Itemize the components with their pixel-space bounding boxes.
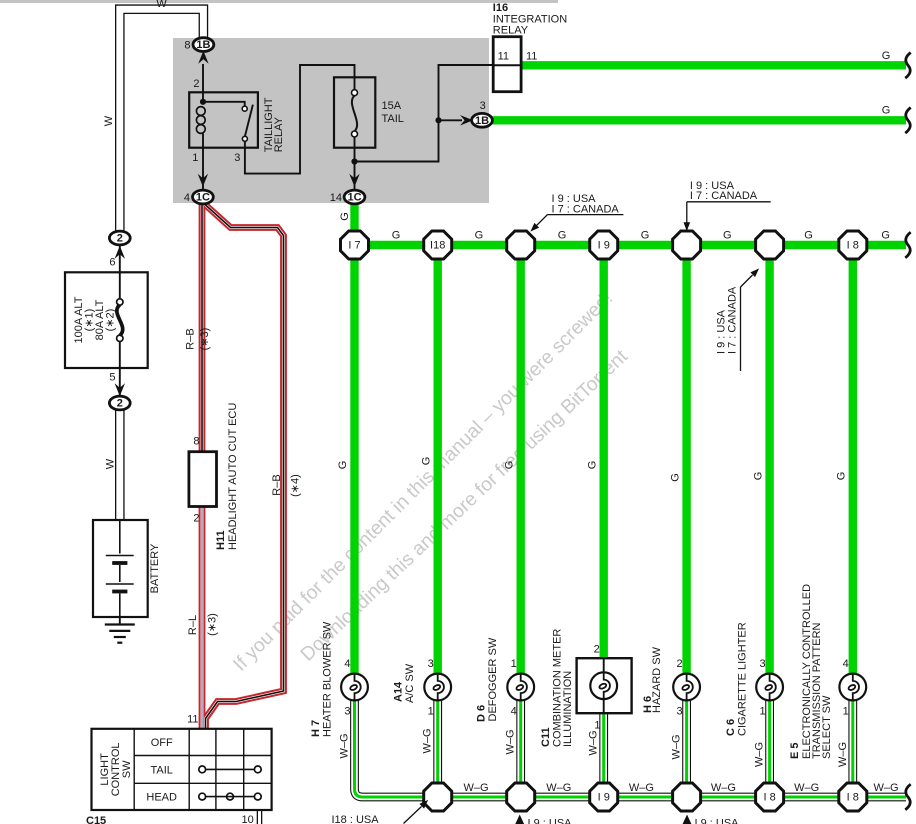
svg-text:3: 3 xyxy=(676,706,682,718)
svg-text:SW: SW xyxy=(121,760,133,778)
svg-text:6: 6 xyxy=(109,257,115,269)
svg-text:H11: H11 xyxy=(215,530,227,550)
svg-text:11: 11 xyxy=(187,714,198,726)
svg-text:HEATER BLOWER SW: HEATER BLOWER SW xyxy=(322,621,334,737)
svg-text:OFF: OFF xyxy=(151,737,173,749)
svg-text:G: G xyxy=(641,230,650,242)
svg-text:4: 4 xyxy=(511,706,517,718)
svg-text:A14: A14 xyxy=(393,681,405,702)
svg-text:W–G: W–G xyxy=(711,782,736,794)
svg-text:11: 11 xyxy=(526,51,537,63)
svg-text:G: G xyxy=(586,461,598,470)
svg-text:C11: C11 xyxy=(540,727,552,747)
svg-text:1: 1 xyxy=(843,706,849,718)
svg-text:14: 14 xyxy=(330,192,342,204)
svg-text:A/C SW: A/C SW xyxy=(404,663,416,703)
svg-text:E 5: E 5 xyxy=(789,742,801,759)
svg-text:W–G: W–G xyxy=(463,782,488,794)
svg-text:HEADLIGHT AUTO CUT ECU: HEADLIGHT AUTO CUT ECU xyxy=(227,403,239,550)
svg-text:1: 1 xyxy=(511,658,517,670)
svg-text:2: 2 xyxy=(193,513,199,525)
svg-text:3: 3 xyxy=(480,100,486,112)
svg-text:I 8: I 8 xyxy=(763,792,775,804)
svg-text:TAIL: TAIL xyxy=(150,764,172,776)
svg-text:4: 4 xyxy=(184,192,190,204)
svg-text:G: G xyxy=(337,461,349,470)
svg-text:2: 2 xyxy=(594,644,600,656)
svg-text:W–G: W–G xyxy=(422,728,434,753)
svg-text:G: G xyxy=(339,212,351,221)
svg-text:W: W xyxy=(103,115,115,126)
svg-text:1B: 1B xyxy=(475,115,489,127)
svg-text:I 7 : CANADA: I 7 : CANADA xyxy=(690,190,758,202)
svg-text:CIGARETTE LIGHTER: CIGARETTE LIGHTER xyxy=(737,622,749,736)
svg-text:1: 1 xyxy=(428,706,434,718)
svg-text:G: G xyxy=(836,472,848,481)
svg-text:(∗4): (∗4) xyxy=(289,474,301,497)
svg-text:G: G xyxy=(669,473,681,482)
svg-text:4: 4 xyxy=(344,658,350,670)
svg-text:11: 11 xyxy=(498,51,509,63)
svg-text:R–L: R–L xyxy=(187,615,199,635)
svg-text:G: G xyxy=(420,457,432,466)
svg-text:4: 4 xyxy=(843,658,849,670)
svg-text:W–G: W–G xyxy=(794,782,819,794)
svg-text:G: G xyxy=(503,461,515,470)
svg-text:15A: 15A xyxy=(382,100,402,112)
svg-text:R–B: R–B xyxy=(271,474,283,495)
svg-text:I 9: I 9 xyxy=(598,240,610,252)
svg-text:I 8: I 8 xyxy=(847,240,859,252)
svg-text:2: 2 xyxy=(117,233,123,245)
svg-text:I 7: I 7 xyxy=(348,240,360,252)
svg-text:(∗2): (∗2) xyxy=(104,309,116,332)
svg-text:G: G xyxy=(882,50,891,62)
svg-text:C15: C15 xyxy=(86,815,106,824)
svg-text:RELAY: RELAY xyxy=(273,116,285,152)
svg-text:I16: I16 xyxy=(493,2,508,14)
svg-text:W–G: W–G xyxy=(546,782,571,794)
svg-text:W: W xyxy=(105,458,117,469)
svg-text:I 8: I 8 xyxy=(847,792,859,804)
svg-text:RELAY: RELAY xyxy=(493,25,529,37)
svg-text:8: 8 xyxy=(184,40,190,52)
svg-text:1: 1 xyxy=(192,152,198,164)
svg-text:G: G xyxy=(558,230,567,242)
svg-text:W–G: W–G xyxy=(671,734,683,759)
svg-text:1B: 1B xyxy=(196,39,210,51)
svg-text:SELECT SW: SELECT SW xyxy=(821,695,833,759)
svg-text:W–G: W–G xyxy=(339,733,351,758)
svg-text:5: 5 xyxy=(109,372,115,384)
svg-text:1C: 1C xyxy=(347,192,361,204)
svg-text:3: 3 xyxy=(428,658,434,670)
svg-text:I18 : USA: I18 : USA xyxy=(332,814,380,824)
svg-text:10: 10 xyxy=(242,814,254,824)
svg-text:C 6: C 6 xyxy=(725,719,737,736)
svg-text:ILLUMINATION: ILLUMINATION xyxy=(562,671,574,747)
svg-text:3: 3 xyxy=(759,658,765,670)
svg-text:(∗3): (∗3) xyxy=(206,613,218,636)
svg-text:W–G: W–G xyxy=(837,742,849,767)
svg-text:I 7 : CANADA: I 7 : CANADA xyxy=(552,203,620,215)
svg-text:TAIL: TAIL xyxy=(382,113,404,125)
svg-text:HAZARD SW: HAZARD SW xyxy=(651,646,663,713)
svg-text:G: G xyxy=(392,230,401,242)
svg-text:3: 3 xyxy=(344,706,350,718)
svg-text:W: W xyxy=(156,0,167,10)
svg-text:1: 1 xyxy=(759,706,765,718)
svg-text:G: G xyxy=(752,472,764,481)
svg-text:I 9 : USA: I 9 : USA xyxy=(695,818,740,824)
svg-text:DEFOGGER SW: DEFOGGER SW xyxy=(487,637,499,721)
svg-text:I 7 : CANADA: I 7 : CANADA xyxy=(726,286,738,354)
svg-text:3: 3 xyxy=(234,152,240,164)
svg-text:1C: 1C xyxy=(196,192,210,204)
svg-text:2: 2 xyxy=(193,78,199,90)
svg-text:W–G: W–G xyxy=(754,742,766,767)
svg-text:HEAD: HEAD xyxy=(146,792,177,804)
svg-text:H 7: H 7 xyxy=(310,720,322,737)
svg-text:1: 1 xyxy=(594,720,600,732)
svg-text:I18: I18 xyxy=(430,240,445,252)
svg-text:I 9 : USA: I 9 : USA xyxy=(528,818,573,824)
svg-text:W–G: W–G xyxy=(629,782,654,794)
svg-text:G: G xyxy=(723,230,732,242)
svg-text:2: 2 xyxy=(117,398,123,410)
svg-text:(∗3): (∗3) xyxy=(199,328,211,351)
svg-text:D 6: D 6 xyxy=(476,705,488,722)
svg-text:I 9: I 9 xyxy=(598,792,610,804)
svg-text:G: G xyxy=(475,230,484,242)
svg-text:BATTERY: BATTERY xyxy=(149,543,161,593)
svg-text:2: 2 xyxy=(676,658,682,670)
svg-text:W–G: W–G xyxy=(873,782,898,794)
svg-text:G: G xyxy=(804,230,813,242)
svg-text:G: G xyxy=(882,105,891,117)
svg-text:W–G: W–G xyxy=(588,730,600,755)
svg-text:8: 8 xyxy=(193,436,199,448)
svg-text:G: G xyxy=(881,230,890,242)
svg-text:W–G: W–G xyxy=(505,729,517,754)
svg-text:R–B: R–B xyxy=(185,328,197,349)
